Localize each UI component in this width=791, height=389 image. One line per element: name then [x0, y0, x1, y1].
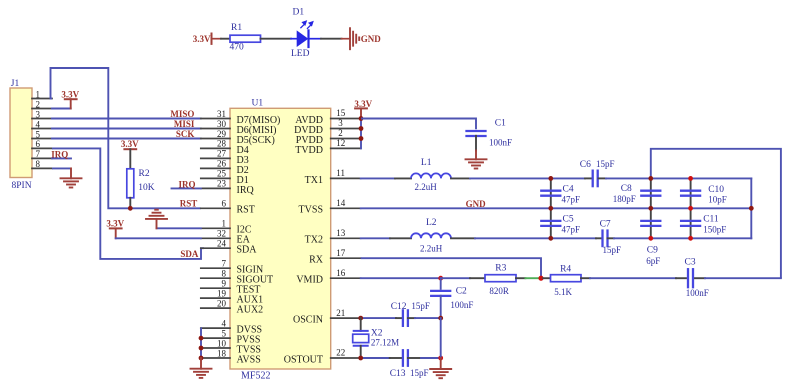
svg-text:29: 29: [217, 129, 227, 139]
svg-text:C9: C9: [647, 246, 658, 256]
junction OSTOUT rail: [438, 356, 443, 361]
wire TX1 to C6: [470, 177, 585, 179]
svg-text:15: 15: [336, 108, 346, 118]
svg-text:15pF: 15pF: [603, 245, 622, 255]
svg-text:100nF: 100nF: [450, 300, 473, 310]
capacitor C10 10pF: [681, 185, 727, 205]
wire OSTOUT net: [361, 357, 390, 359]
capacitor C3 100nF (series): [685, 258, 709, 299]
svg-text:10pF: 10pF: [708, 195, 727, 205]
svg-text:LED: LED: [291, 49, 310, 59]
svg-text:11: 11: [336, 168, 345, 178]
LED D1: [291, 7, 321, 59]
svg-text:8: 8: [36, 159, 41, 169]
svg-text:25: 25: [217, 169, 227, 179]
capacitor C11 150pF: [681, 215, 726, 235]
svg-text:C6: C6: [580, 160, 591, 170]
capacitor C6 15pF (series): [580, 159, 615, 186]
wire L2 lead: [451, 237, 475, 239]
svg-text:C8: C8: [621, 184, 632, 194]
junction A/GND: [548, 206, 553, 211]
junction AVSS: [199, 356, 204, 361]
svg-text:MISI: MISI: [174, 119, 195, 129]
wire column C4/C5: [550, 178, 552, 238]
wire C2 branch: [440, 278, 442, 289]
ground (oscillator rail): [430, 368, 451, 370]
wire GND (TVSS) net: [361, 207, 752, 209]
svg-text:TVSS: TVSS: [299, 205, 323, 216]
svg-text:3.3V: 3.3V: [193, 34, 211, 44]
wire R3 lead: [516, 277, 525, 279]
wire C3 to far right riser: [705, 277, 781, 279]
capacitor C7 15pF (series): [600, 220, 621, 255]
wire TX2 to C7: [475, 237, 596, 239]
svg-text:IRQ: IRQ: [51, 149, 68, 159]
svg-text:27.12M: 27.12M: [371, 337, 399, 347]
svg-text:16: 16: [336, 268, 346, 278]
svg-text:23: 23: [217, 179, 227, 189]
svg-text:C4: C4: [563, 185, 574, 195]
capacitor C13 15pF (series): [390, 350, 429, 379]
wire AVDD rail vertical: [360, 119, 362, 149]
svg-text:820R: 820R: [489, 286, 509, 296]
inductor L1 2.2uH: [411, 158, 451, 192]
svg-text:SDA: SDA: [237, 245, 258, 256]
wire IRQ stub at U1.23: [172, 187, 201, 189]
svg-text:TX2: TX2: [305, 235, 323, 246]
svg-text:1: 1: [222, 219, 227, 229]
svg-text:32: 32: [217, 229, 226, 239]
svg-text:18: 18: [217, 348, 227, 358]
svg-text:C5: C5: [563, 214, 574, 224]
svg-text:2: 2: [36, 99, 41, 109]
capacitor C9 6pF: [641, 221, 660, 266]
wire right loop TX1-TX2: [750, 178, 752, 238]
svg-text:C2: C2: [456, 287, 467, 297]
svg-text:2: 2: [338, 128, 343, 138]
svg-text:7: 7: [222, 259, 227, 269]
wire R1 to D1: [261, 38, 292, 40]
junction OSTOUT/X2: [358, 356, 363, 361]
svg-text:R1: R1: [231, 23, 242, 33]
svg-text:C13: C13: [390, 369, 406, 379]
svg-text:470: 470: [230, 43, 245, 53]
svg-text:D1: D1: [293, 7, 305, 17]
svg-text:24: 24: [217, 239, 227, 249]
svg-text:2.2uH: 2.2uH: [420, 243, 443, 253]
svg-text:30: 30: [217, 119, 227, 129]
svg-text:4: 4: [222, 318, 227, 328]
svg-text:3: 3: [36, 109, 41, 119]
svg-text:OSCIN: OSCIN: [293, 315, 323, 326]
resistor R2: [127, 169, 155, 198]
junction A/TX2: [548, 236, 553, 241]
svg-text:47pF: 47pF: [562, 224, 581, 234]
junction R2/RST: [128, 206, 133, 211]
wire C2 rail to ground: [440, 318, 442, 358]
capacitor C1: [467, 119, 513, 148]
junction VMID/C2: [438, 276, 443, 281]
svg-text:SCK: SCK: [176, 129, 195, 139]
wire D1 to GND: [321, 38, 342, 40]
ground (C1): [466, 158, 487, 160]
svg-text:L2: L2: [426, 218, 437, 228]
wire C6 to right loop: [606, 177, 751, 179]
junction PVSS: [199, 336, 204, 341]
junction TVSS: [199, 346, 204, 351]
svg-text:12: 12: [336, 138, 345, 148]
svg-text:C12: C12: [391, 302, 407, 312]
svg-text:27: 27: [217, 149, 227, 159]
svg-text:19: 19: [217, 288, 227, 298]
wire green segment: [525, 277, 538, 279]
svg-text:GND: GND: [466, 199, 487, 209]
wire C7 to right loop: [614, 237, 751, 239]
svg-text:31: 31: [217, 109, 226, 119]
svg-text:U1: U1: [252, 98, 264, 108]
wire R2 bottom lead: [129, 198, 131, 209]
svg-text:RST: RST: [237, 205, 255, 216]
svg-text:15pF: 15pF: [411, 301, 430, 311]
ground GND (LED branch): [342, 28, 382, 49]
capacitor C5 47pF: [541, 214, 580, 234]
svg-text:5.1K: 5.1K: [554, 287, 572, 297]
svg-text:TVDD: TVDD: [295, 145, 323, 156]
svg-text:MISO: MISO: [170, 109, 194, 119]
svg-text:5: 5: [36, 129, 41, 139]
wire top loop: [651, 149, 781, 278]
junction C/GND: [688, 206, 693, 211]
power 3.3V (R2 top): [121, 139, 139, 169]
junction B/TX2: [648, 236, 653, 241]
svg-text:22: 22: [336, 348, 345, 358]
junction OSCIN/X2: [358, 316, 363, 321]
svg-text:10K: 10K: [138, 183, 155, 193]
junction R3/R4/RX: [538, 276, 543, 281]
svg-text:20: 20: [217, 298, 227, 308]
wire SDA net: J1.6 to U1.24: [52, 148, 204, 259]
svg-text:8: 8: [222, 269, 227, 279]
connector J1 8PIN: [10, 79, 52, 191]
wire MISI J1.4 to U1.30: [52, 128, 201, 130]
svg-text:6pF: 6pF: [646, 256, 660, 266]
svg-text:5: 5: [222, 328, 227, 338]
svg-text:R3: R3: [495, 264, 506, 274]
wire OSCIN net: [361, 317, 396, 319]
power 3.3V (EA pin): [106, 218, 124, 238]
capacitor C4 47pF: [541, 185, 580, 205]
ground (U1 VSS rail): [191, 368, 212, 370]
svg-text:7: 7: [36, 149, 41, 159]
svg-text:RST: RST: [180, 199, 198, 209]
svg-text:RX: RX: [309, 255, 324, 266]
junction DVDD: [359, 126, 364, 131]
wire J1.8 to ground: [52, 167, 71, 169]
svg-text:100nF: 100nF: [489, 138, 512, 148]
wire EA to 3.3V: [116, 237, 201, 239]
junction C/TX1: [688, 176, 693, 181]
svg-text:AUX2: AUX2: [237, 305, 264, 316]
svg-text:15pF: 15pF: [410, 368, 429, 378]
wire rail to ground: [200, 358, 202, 369]
svg-text:3.3V: 3.3V: [106, 218, 124, 228]
svg-text:2.2uH: 2.2uH: [415, 182, 438, 192]
wire AVDD to C1: [361, 119, 476, 130]
svg-text:OSTOUT: OSTOUT: [284, 354, 323, 365]
svg-text:3.3V: 3.3V: [61, 90, 79, 100]
wire J1 pin1 to RST net: [51, 68, 201, 208]
svg-text:1: 1: [36, 89, 41, 99]
power 3.3V (J1 pin2): [52, 90, 80, 109]
wire column C8/C9: [650, 178, 652, 238]
ground flipped (I2C): [156, 219, 158, 228]
junction A/TX1: [548, 176, 553, 181]
svg-text:C11: C11: [703, 215, 719, 225]
svg-text:4: 4: [36, 119, 41, 129]
wire I2C to flipped ground: [157, 227, 201, 229]
resistor R4 5.1K: [551, 264, 582, 297]
wire L1 lead: [451, 177, 470, 179]
svg-text:R2: R2: [139, 169, 150, 179]
wire C1 to ground: [475, 136, 477, 151]
capacitor C12 15pF (series): [391, 301, 430, 326]
svg-text:10: 10: [217, 338, 227, 348]
capacitor C2 100nF: [431, 287, 473, 311]
junction right loop/GND: [749, 206, 754, 211]
svg-text:VMID: VMID: [296, 275, 323, 286]
svg-text:15pF: 15pF: [596, 159, 615, 169]
svg-text:21: 21: [336, 308, 345, 318]
svg-text:150pF: 150pF: [703, 224, 726, 234]
capacitor C8 180pF: [613, 184, 661, 204]
wire IRQ stub at J1.7: [52, 157, 71, 159]
svg-text:C10: C10: [708, 185, 724, 195]
svg-text:26: 26: [217, 159, 227, 169]
wire column C10/C11: [690, 178, 692, 238]
wire SCK J1.5 to U1.29: [52, 138, 201, 140]
junction OSCIN/C2 rail: [438, 316, 443, 321]
svg-text:C7: C7: [600, 220, 611, 230]
svg-text:MF522: MF522: [241, 370, 270, 381]
svg-text:6: 6: [36, 139, 41, 149]
svg-text:SDA: SDA: [180, 249, 199, 259]
power 3.3V (LED branch): [193, 34, 221, 45]
svg-text:IRQ: IRQ: [237, 185, 255, 196]
svg-text:180pF: 180pF: [613, 194, 636, 204]
svg-text:8PIN: 8PIN: [12, 181, 32, 191]
junction PVDD: [359, 136, 364, 141]
svg-text:L1: L1: [421, 158, 432, 168]
svg-text:47pF: 47pF: [562, 195, 581, 205]
ground (J1 pin8): [61, 177, 82, 179]
svg-text:C3: C3: [685, 258, 696, 268]
svg-text:13: 13: [336, 228, 346, 238]
svg-text:AVSS: AVSS: [237, 354, 261, 365]
resistor R3 820R: [485, 264, 516, 297]
svg-text:17: 17: [336, 248, 346, 258]
junction C/TX2: [688, 236, 693, 241]
junction B/GND: [648, 206, 653, 211]
svg-text:100nF: 100nF: [686, 288, 709, 298]
inductor L2 2.2uH: [411, 218, 451, 253]
junction AVDD: [359, 116, 364, 121]
svg-text:3: 3: [338, 118, 343, 128]
svg-text:C1: C1: [495, 119, 506, 129]
IC U1 MF522: [201, 98, 361, 381]
resistor R1: [230, 23, 261, 53]
svg-text:28: 28: [217, 139, 227, 149]
wire R4 to C3: [590, 277, 676, 279]
svg-text:3.3V: 3.3V: [121, 139, 139, 149]
svg-text:TX1: TX1: [305, 175, 323, 186]
junction B/TX1: [648, 176, 653, 181]
power 3.3V (AVDD rail): [354, 99, 372, 119]
wire TX1 net: [361, 177, 395, 179]
svg-text:9: 9: [222, 279, 227, 289]
svg-text:6: 6: [222, 199, 227, 209]
wire MISO J1.3 to U1.31: [52, 118, 201, 120]
wire DVSS/PVSS/TVSS/AVSS rail: [200, 328, 202, 358]
svg-text:R4: R4: [560, 264, 571, 274]
svg-text:GND: GND: [361, 34, 382, 44]
svg-text:14: 14: [336, 198, 346, 208]
wire R4 lead: [543, 277, 550, 279]
wire TX2 net: [361, 237, 390, 239]
wire RX net: [361, 258, 541, 278]
wire 3.3V to R1: [221, 38, 230, 40]
svg-text:J1: J1: [11, 79, 20, 89]
svg-text:IRQ: IRQ: [178, 179, 195, 189]
wire VMID net: [361, 277, 441, 279]
crystal X2 27.12M: [353, 318, 399, 358]
